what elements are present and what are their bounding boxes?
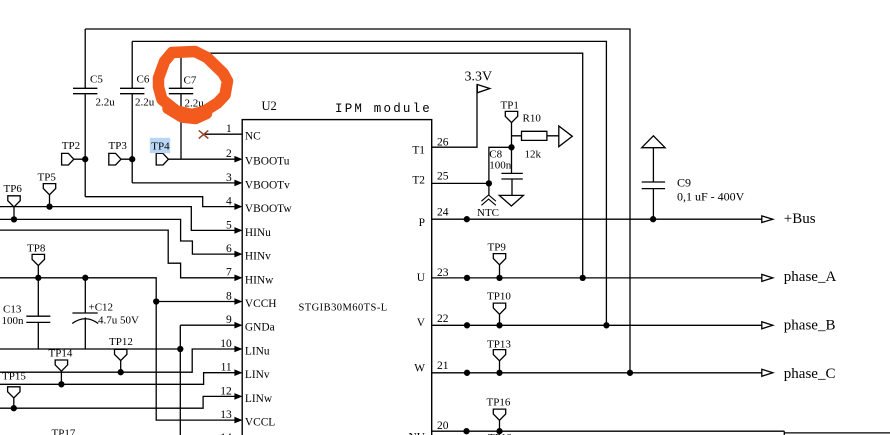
node W bootstrap bbox=[627, 370, 633, 376]
node TP6 bbox=[11, 216, 17, 222]
open arrow R10 output bbox=[559, 126, 573, 147]
svg-text:1: 1 bbox=[226, 123, 232, 135]
node V TP10 bbox=[496, 322, 502, 328]
test point TP10 bbox=[493, 303, 505, 325]
wire pin1 NC bbox=[205, 133, 242, 135]
pin 10 arrow bbox=[234, 346, 242, 353]
wire pin20 NU line bbox=[432, 430, 785, 432]
node NU a bbox=[463, 428, 469, 434]
wire pin22 V phase_B bbox=[432, 324, 762, 326]
svg-text:VCCH: VCCH bbox=[245, 298, 277, 310]
svg-text:+C12: +C12 bbox=[89, 302, 114, 314]
node V a bbox=[464, 322, 470, 328]
node TP14 bbox=[58, 381, 64, 387]
svg-text:100n: 100n bbox=[489, 160, 512, 172]
test point TP4 bbox=[156, 153, 168, 165]
node P a bbox=[464, 216, 470, 222]
pin 2 arrow bbox=[234, 156, 242, 163]
node C6 TP3 bbox=[129, 156, 135, 162]
svg-text:TP15: TP15 bbox=[2, 371, 26, 383]
open arrow +Bus bbox=[762, 216, 773, 223]
svg-text:12k: 12k bbox=[525, 149, 542, 161]
wire HINw line to pin7 bbox=[0, 230, 235, 278]
svg-text:C13: C13 bbox=[3, 304, 22, 316]
svg-text:VCCL: VCCL bbox=[245, 417, 275, 429]
svg-text:TP16: TP16 bbox=[487, 397, 511, 409]
svg-text:TP10: TP10 bbox=[487, 291, 511, 303]
pin 8 arrow bbox=[234, 298, 242, 305]
capacitor C12 (polarized) bbox=[72, 278, 97, 349]
svg-text:25: 25 bbox=[437, 171, 449, 183]
svg-text:GNDa: GNDa bbox=[245, 322, 275, 334]
wire pin24 P to +Bus bbox=[432, 218, 762, 220]
node C12 top bbox=[82, 275, 88, 281]
svg-text:TP9: TP9 bbox=[488, 242, 507, 254]
test point TP3 bbox=[109, 153, 132, 165]
svg-text:26: 26 bbox=[437, 137, 449, 149]
node C5 TP2 bbox=[82, 156, 88, 162]
wire bootstrap rail 2 (C6 top to phase_B) bbox=[132, 41, 606, 325]
wire LINv line to pin11 bbox=[0, 373, 235, 385]
svg-text:HINw: HINw bbox=[245, 274, 274, 286]
test point TP9 bbox=[493, 254, 505, 278]
capacitor C9 with power arrow bbox=[642, 136, 665, 148]
svg-text:10: 10 bbox=[220, 338, 232, 350]
node P C9 bbox=[650, 216, 656, 222]
svg-text:NTC: NTC bbox=[477, 207, 499, 219]
pin 11 arrow bbox=[234, 369, 242, 376]
svg-text:0,1 uF - 400V: 0,1 uF - 400V bbox=[677, 190, 745, 204]
node VCCH bbox=[153, 298, 159, 304]
ground symbol bbox=[499, 195, 523, 206]
svg-text:TP3: TP3 bbox=[109, 140, 128, 152]
svg-text:+Bus: +Bus bbox=[784, 211, 816, 227]
svg-text:R10: R10 bbox=[523, 113, 542, 125]
svg-text:2.2u: 2.2u bbox=[135, 97, 155, 109]
wire LINu line to pin10 bbox=[0, 349, 235, 372]
wire pin23 U phase_A bbox=[432, 277, 762, 279]
svg-text:TP17: TP17 bbox=[52, 428, 76, 435]
svg-text:3.3V: 3.3V bbox=[465, 70, 493, 85]
node TP1 R10 C8 bbox=[508, 144, 514, 150]
wire TP6 line to pin6 HINv bbox=[0, 219, 235, 254]
test point TP5 bbox=[43, 184, 55, 207]
wire C5/TP2 net to pin4 VBOOTw bbox=[85, 197, 235, 207]
svg-text:HINv: HINv bbox=[245, 251, 271, 263]
test point TP2 bbox=[62, 153, 86, 165]
node NU TP16 bbox=[496, 428, 502, 434]
capacitor C8 bbox=[501, 173, 522, 195]
node U bootstrap bbox=[580, 275, 586, 281]
svg-text:STGIB30M60TS-L: STGIB30M60TS-L bbox=[299, 303, 388, 314]
svg-text:TP2: TP2 bbox=[62, 140, 80, 152]
node TP12 bbox=[118, 369, 124, 375]
svg-text:24: 24 bbox=[437, 207, 449, 219]
wire bootstrap rail 1 (C5 top to phase_C) bbox=[85, 29, 630, 373]
svg-text:23: 23 bbox=[437, 267, 449, 279]
pin 4 arrow bbox=[234, 203, 242, 210]
node GND rail bbox=[177, 346, 183, 352]
capacitor C7 bbox=[169, 53, 193, 159]
wire TP5 line to pin5 HINu bbox=[0, 207, 235, 231]
svg-text:TP4: TP4 bbox=[151, 141, 170, 153]
open arrow phase_A bbox=[762, 274, 773, 281]
capacitor C13 bbox=[26, 278, 50, 349]
svg-text:9: 9 bbox=[226, 314, 232, 326]
svg-text:4.7u 50V: 4.7u 50V bbox=[98, 315, 139, 327]
IPM module box U2 bbox=[242, 120, 432, 435]
svg-text:VBOOTv: VBOOTv bbox=[245, 179, 290, 191]
svg-text:3: 3 bbox=[226, 172, 232, 184]
svg-text:VBOOTw: VBOOTw bbox=[245, 203, 292, 215]
wire pin2 VBOOTu bbox=[168, 158, 235, 160]
svg-text:IPM module: IPM module bbox=[335, 102, 432, 116]
test point TP16 bbox=[493, 409, 505, 431]
svg-text:C9: C9 bbox=[677, 176, 691, 190]
svg-text:TP8: TP8 bbox=[27, 243, 46, 255]
test point TP12 bbox=[115, 349, 127, 372]
test point TP14 bbox=[55, 360, 67, 384]
wire bootstrap rail 3 (C7 top to phase_A) bbox=[181, 53, 583, 278]
node TP8 C13 bbox=[35, 275, 41, 281]
pin 5 arrow bbox=[234, 227, 242, 234]
svg-text:C7: C7 bbox=[184, 75, 197, 87]
node TP5 bbox=[46, 203, 52, 209]
svg-text:V: V bbox=[417, 317, 426, 329]
wire pin21 W phase_C bbox=[432, 372, 762, 374]
svg-text:phase_B: phase_B bbox=[784, 318, 836, 334]
svg-text:TP12: TP12 bbox=[109, 336, 133, 348]
svg-text:20: 20 bbox=[437, 420, 449, 432]
svg-text:TP5: TP5 bbox=[38, 172, 57, 184]
pin 13 arrow bbox=[234, 417, 242, 424]
svg-text:VBOOTu: VBOOTu bbox=[245, 156, 290, 168]
test point TP6 bbox=[8, 196, 20, 220]
svg-text:5: 5 bbox=[226, 219, 232, 231]
capacitor C5 bbox=[73, 29, 97, 197]
svg-text:U: U bbox=[417, 272, 425, 284]
svg-text:LINu: LINu bbox=[245, 346, 270, 358]
svg-text:phase_A: phase_A bbox=[784, 269, 837, 285]
svg-text:U2: U2 bbox=[262, 99, 277, 113]
svg-text:LINv: LINv bbox=[245, 369, 270, 381]
wire GND rail bbox=[0, 348, 180, 350]
svg-text:6: 6 bbox=[226, 243, 232, 255]
svg-text:T1: T1 bbox=[412, 144, 425, 156]
svg-text:21: 21 bbox=[437, 360, 449, 372]
svg-text:13: 13 bbox=[220, 409, 232, 421]
wire VCC rail TP8 to VCCH/VCCL bbox=[0, 278, 235, 420]
node T2 NTC bbox=[486, 180, 492, 186]
wire GNDa pin9 and vertical bbox=[180, 325, 235, 435]
capacitor C6 bbox=[120, 41, 144, 183]
wire C6/TP3 net to pin3 VBOOTv bbox=[132, 182, 235, 184]
power flag 3.3V bbox=[477, 85, 490, 93]
node V bootstrap bbox=[603, 322, 609, 328]
resistor R10 bbox=[512, 131, 559, 140]
node W TP13 bbox=[496, 370, 502, 376]
svg-text:2: 2 bbox=[226, 148, 232, 160]
orange marker annotation circling C7 bbox=[159, 52, 228, 119]
open arrow phase_B bbox=[762, 322, 773, 329]
pin 6 arrow bbox=[234, 251, 242, 258]
svg-text:W: W bbox=[414, 363, 425, 375]
no-connect X on pin1 bbox=[199, 130, 209, 138]
wire LINw line to pin12 bbox=[0, 396, 235, 408]
test point TP13 bbox=[493, 350, 505, 373]
svg-text:2.2u: 2.2u bbox=[96, 97, 116, 109]
test point TP8 bbox=[32, 254, 44, 277]
svg-text:LINw: LINw bbox=[245, 393, 273, 405]
svg-text:22: 22 bbox=[437, 313, 449, 325]
svg-text:TP1: TP1 bbox=[501, 100, 519, 112]
svg-text:TP6: TP6 bbox=[4, 183, 23, 195]
open arrow phase_C bbox=[762, 369, 773, 376]
svg-text:T2: T2 bbox=[412, 174, 425, 186]
node U a bbox=[464, 275, 470, 281]
svg-text:12: 12 bbox=[220, 385, 232, 397]
svg-text:4: 4 bbox=[226, 196, 232, 208]
svg-text:C5: C5 bbox=[90, 74, 103, 86]
wire lower box corner bbox=[784, 431, 890, 435]
svg-text:TP13: TP13 bbox=[487, 339, 511, 351]
svg-text:HINu: HINu bbox=[245, 227, 271, 239]
NTC chevron symbol bbox=[481, 195, 496, 205]
svg-text:C6: C6 bbox=[137, 74, 150, 86]
svg-text:100n: 100n bbox=[2, 315, 25, 327]
svg-text:P: P bbox=[419, 217, 425, 229]
pin 9 arrow bbox=[234, 322, 242, 329]
pin 3 arrow bbox=[234, 180, 242, 187]
TP4 highlight bbox=[150, 138, 170, 153]
wire pin25 T2 branch bbox=[432, 147, 512, 195]
svg-text:NC: NC bbox=[245, 131, 261, 143]
svg-text:TP14: TP14 bbox=[49, 348, 73, 360]
node U TP9 bbox=[496, 275, 502, 281]
node TP15 bbox=[11, 405, 17, 411]
test point TP1 bbox=[505, 111, 517, 173]
svg-text:phase_C: phase_C bbox=[784, 366, 836, 382]
svg-text:11: 11 bbox=[221, 362, 232, 374]
pin 7 arrow bbox=[234, 275, 242, 282]
svg-text:8: 8 bbox=[226, 290, 232, 302]
pin 12 arrow bbox=[234, 393, 242, 400]
svg-text:7: 7 bbox=[226, 267, 232, 279]
node W a bbox=[464, 370, 470, 376]
svg-text:NU: NU bbox=[409, 432, 425, 435]
test point TP15 bbox=[8, 387, 20, 408]
wire pin26 T1 to 3.3V flag bbox=[432, 84, 477, 147]
